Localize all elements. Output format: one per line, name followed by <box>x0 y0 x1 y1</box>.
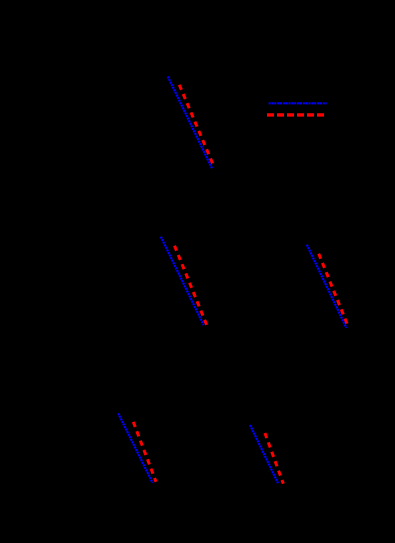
subplot 5 blue dotted series <box>250 425 278 483</box>
legend red dashed sample <box>267 113 324 116</box>
subplot 1 blue dotted series <box>168 77 212 169</box>
subplot 1 red dashed series <box>179 85 213 165</box>
subplot 3 red dashed series <box>319 254 347 324</box>
subplot 5 red dashed series <box>265 433 283 484</box>
subplot 2 blue dotted series <box>161 237 204 325</box>
subplot 4 red dashed series <box>133 422 156 482</box>
subplot 3 blue dotted series <box>307 245 347 328</box>
subplot 4 blue dotted series <box>118 413 152 483</box>
subplot 2 red dashed series <box>175 246 207 326</box>
legend blue dotted sample <box>269 102 327 104</box>
